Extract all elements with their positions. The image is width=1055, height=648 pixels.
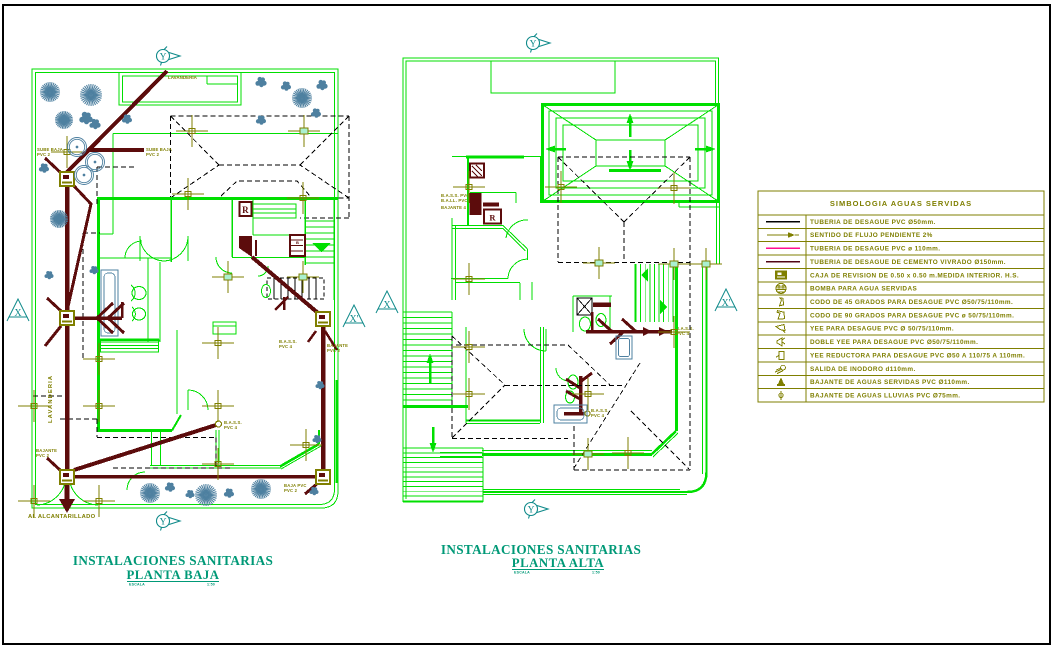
- hall wall horizontal: [100, 257, 171, 259]
- tree starburst garden 3: [80, 84, 102, 106]
- pipe vertical main lower: [65, 326, 70, 471]
- legend row separator: [758, 374, 1044, 376]
- legend symbol yee: [776, 325, 785, 333]
- tree starburst garden 1: [40, 82, 60, 102]
- bath2 fixtures: [262, 285, 271, 298]
- caja de revision CR5: [316, 470, 330, 484]
- pipe tree lower: [579, 376, 583, 414]
- svg-text:AL ALCANTARILLADO: AL ALCANTARILLADO: [28, 514, 96, 520]
- tub bath1 planta baja: [101, 270, 118, 336]
- bath2 dashed box with steps: [267, 278, 324, 299]
- svg-text:LAVANDERIA: LAVANDERIA: [168, 75, 198, 80]
- roof alta outer thick: [543, 105, 719, 202]
- eave right extension: [678, 202, 680, 207]
- pipe long diagonal to BASS: [74, 425, 216, 470]
- axis crosses planta baja: [176, 115, 208, 147]
- legend symbol bomba: [776, 283, 786, 293]
- legend symbol blluv: [779, 391, 783, 400]
- fixture hatch box alta: [470, 164, 484, 178]
- svg-text:CAJA DE REVISION DE 0.50 x 0.5: CAJA DE REVISION DE 0.50 x 0.50 m.MEDIDA…: [810, 272, 1019, 279]
- svg-text:YEE REDUCTORA PARA DESAGUE PVC: YEE REDUCTORA PARA DESAGUE PVC Ø50 A 110…: [810, 352, 1025, 359]
- roof alta diagonals: [543, 105, 596, 140]
- dashed corridor line: [33, 395, 68, 397]
- legend symbol codo90: [777, 311, 785, 320]
- double door arcs center: [140, 236, 164, 261]
- wall chamfer alta: [652, 431, 676, 454]
- bath1 small stubs: [275, 297, 288, 310]
- axis marker X-prime right: [343, 305, 365, 327]
- roof arrows: [629, 116, 632, 137]
- legend row separator: [758, 294, 1044, 296]
- svg-text:TUBERIA DE DESAGUE PVC Ø50mm.: TUBERIA DE DESAGUE PVC Ø50mm.: [810, 219, 936, 226]
- legend row separator: [758, 361, 1044, 363]
- axis crosses planta alta: [453, 171, 485, 203]
- svg-text:BOMBA PARA AGUA SERVIDAS: BOMBA PARA AGUA SERVIDAS: [810, 286, 917, 293]
- pipe vertical right main: [321, 327, 326, 471]
- svg-text:SENTIDO DE FLUJO PENDIENTE 2%: SENTIDO DE FLUJO PENDIENTE 2%: [810, 232, 933, 239]
- svg-text:BAJANTE 4: BAJANTE 4: [441, 205, 467, 210]
- pipe vertical main upper: [65, 185, 70, 312]
- door arc hall: [125, 241, 142, 258]
- garden gate arcs bottom-left: [37, 476, 66, 505]
- svg-text:LAVANDERIA: LAVANDERIA: [48, 375, 54, 423]
- pipe kink to bath: [67, 186, 91, 311]
- legend title separator: [758, 214, 1044, 216]
- terrace stairs arrow down: [432, 427, 435, 450]
- shower blue alta: [616, 336, 632, 359]
- legend row separator: [758, 254, 1044, 256]
- bedroom walls bottom: [466, 419, 540, 421]
- dashed roof3 alta: [573, 426, 575, 470]
- shrub cluster A: [79, 112, 92, 124]
- legend symbol ryee: [776, 351, 784, 359]
- house bottom wall: [150, 465, 281, 467]
- shrubs top strip: [255, 77, 266, 87]
- svg-text:INSTALACIONES SANITARIAS: INSTALACIONES SANITARIAS: [441, 542, 641, 557]
- right boundary below roof: [716, 202, 718, 264]
- tree starburst garden 5: [50, 210, 68, 228]
- registro box R: [240, 202, 252, 216]
- house top wall: [97, 197, 338, 200]
- pipe CR6 stubs: [308, 331, 316, 342]
- terrace landing thick line: [403, 405, 468, 408]
- legend row separator: [758, 308, 1044, 310]
- door arc bedroom SW: [188, 390, 208, 410]
- wall vertical x541 upper: [540, 157, 542, 203]
- tree starburst garden 4: [292, 88, 312, 108]
- svg-text:PVC 2: PVC 2: [37, 152, 51, 157]
- svg-text:1:50: 1:50: [207, 583, 215, 587]
- legend symbol arrow: [767, 234, 790, 236]
- svg-text:PVC 2: PVC 2: [284, 488, 298, 493]
- boundary alta left+top: [403, 58, 719, 502]
- svg-text:DOBLE YEE PARA DESAGUE PVC Ø50: DOBLE YEE PARA DESAGUE PVC Ø50/75/110mm.: [810, 339, 978, 346]
- tub lower blue: [554, 405, 587, 423]
- partition vertical x232: [231, 198, 233, 257]
- terrace stairs upper flight: [403, 311, 452, 313]
- tree starburst garden 2: [55, 111, 73, 129]
- svg-text:X: X: [14, 308, 22, 319]
- svg-text:YEE PARA DESAGUE PVC Ø 50/75/1: YEE PARA DESAGUE PVC Ø 50/75/110mm.: [810, 326, 954, 333]
- svg-text:Y: Y: [160, 53, 167, 63]
- bath lower fixtures: [568, 375, 578, 389]
- house bottom-left room wall: [97, 429, 172, 432]
- bottom strip plants: [140, 483, 160, 503]
- dashed garden line A: [97, 166, 136, 168]
- registro R alta: [484, 210, 501, 224]
- pipe main diagonal to lavanderia: [67, 71, 167, 172]
- pipe bottom main horizontal: [74, 475, 316, 479]
- axis marker Y bottom: [157, 512, 181, 531]
- legend row separator: [758, 281, 1044, 283]
- pipe stub near R: [255, 240, 257, 256]
- legend row separator: [758, 267, 1044, 269]
- bath1 pipe tree: [74, 316, 122, 320]
- bottom wall thick alta: [482, 453, 652, 456]
- door arc small: [556, 368, 569, 381]
- wall left rooms doubles: [451, 218, 453, 300]
- svg-text:BAJANTE DE AGUAS SERVIDAS PVC: BAJANTE DE AGUAS SERVIDAS PVC Ø110mm.: [810, 379, 970, 386]
- legend symbol inodoro: [775, 365, 785, 373]
- stairs interior alta: [635, 264, 637, 322]
- svg-text:CODO DE 90 GRADOS PARA DESAGUE: CODO DE 90 GRADOS PARA DESAGUE PVC ø 50/…: [810, 312, 1014, 319]
- dashed eave bottom: [60, 418, 97, 420]
- house left wall: [97, 198, 100, 432]
- legend row separator: [758, 334, 1044, 336]
- pipe CR3 branch SW: [45, 326, 61, 346]
- roof dashed outline planta baja: [171, 115, 350, 117]
- legend row separator: [758, 241, 1044, 243]
- lower roof dashed: [221, 181, 310, 196]
- caja de revision CR6: [316, 312, 330, 326]
- fixture filled alta: [470, 193, 482, 215]
- pipe sink drop: [591, 312, 594, 331]
- bedroom SW right wall: [176, 330, 178, 414]
- legend table frame: [758, 191, 1044, 402]
- bath upper walls: [572, 296, 574, 332]
- tree rings cluster: [68, 138, 87, 157]
- legend row separator: [758, 388, 1044, 390]
- stair walls alta: [675, 264, 678, 431]
- legend symbol bserv: [777, 377, 785, 386]
- terrace stairs arrow up: [429, 356, 432, 384]
- property boundary outer: [32, 69, 338, 508]
- wall y257 closet bottom: [232, 257, 305, 259]
- kitchen counter: [213, 322, 236, 334]
- svg-text:PVC 2: PVC 2: [146, 152, 160, 157]
- bath1 walls: [147, 258, 149, 342]
- partition vertical x171: [170, 198, 172, 262]
- svg-text:SIMBOLOGIA AGUAS SERVIDAS: SIMBOLOGIA AGUAS SERVIDAS: [830, 199, 972, 208]
- svg-text:PLANTA BAJA: PLANTA BAJA: [126, 568, 219, 582]
- pipe outfall arrow: [65, 485, 70, 500]
- wall horizontal y278: [451, 278, 508, 280]
- svg-text:TUBERIA DE DESAGUE DE CEMENTO: TUBERIA DE DESAGUE DE CEMENTO VIVRADO Ø1…: [810, 259, 1006, 266]
- maroon stub sink upper: [593, 302, 611, 307]
- svg-text:PVC 2: PVC 2: [36, 453, 50, 458]
- legend column separator: [805, 215, 807, 402]
- roof left edge wall: [541, 104, 544, 203]
- caja de revision CR2: [60, 172, 74, 186]
- svg-text:X: X: [383, 300, 391, 311]
- bottom boundary thin: [483, 489, 680, 491]
- wall horizontal y192: [470, 192, 516, 194]
- pipe main alta with chevrons: [586, 330, 672, 334]
- closet stripes room SW: [101, 339, 159, 352]
- svg-text:CODO DE 45 GRADOS PARA DESAGUE: CODO DE 45 GRADOS PARA DESAGUE PVC Ø50/7…: [810, 299, 1013, 306]
- svg-text:ESCALA: ESCALA: [514, 571, 530, 575]
- svg-text:Y: Y: [528, 506, 535, 516]
- lavanderia room: [119, 73, 241, 106]
- legend symbol cr: [775, 271, 787, 280]
- pipe CR4 stub NW: [47, 458, 60, 470]
- pipe alta barbs: [598, 319, 612, 332]
- pipe branch horizontal garden: [88, 148, 144, 152]
- legend symbol codo45: [780, 298, 784, 306]
- legend row separator: [758, 348, 1044, 350]
- caja de revision CR3: [60, 311, 74, 325]
- svg-text:ESCALA: ESCALA: [129, 583, 145, 587]
- dashed roof1 alta: [558, 156, 690, 158]
- wall vertical x468: [467, 157, 469, 225]
- svg-text:1:50: 1:50: [592, 571, 600, 575]
- shrub B: [122, 114, 132, 123]
- garden fence lines: [113, 133, 338, 135]
- door arc kitchen: [216, 257, 232, 273]
- closet upper right: [253, 204, 296, 218]
- property boundary inner: [36, 73, 335, 505]
- hall door arc upper: [506, 220, 528, 238]
- stair walls: [304, 198, 306, 265]
- caja de revision CR4: [60, 470, 74, 484]
- svg-text:B: B: [296, 240, 299, 245]
- axis marker X left: [7, 299, 29, 321]
- stairs planta baja: [306, 220, 334, 222]
- dashed roof2 alta: [451, 336, 453, 438]
- garage door filled: [239, 236, 252, 257]
- door jamb verticals bottom: [215, 430, 217, 463]
- pipe stub NW of CR2: [45, 158, 61, 173]
- legend row separator: [758, 227, 1044, 229]
- bottom-right chamfer wall: [280, 444, 319, 467]
- BAP box by stairs: [290, 235, 305, 256]
- roof hips planta baja: [171, 116, 220, 165]
- svg-text:PVC 4: PVC 4: [224, 425, 238, 430]
- svg-text:INSTALACIONES SANITARIAS: INSTALACIONES SANITARIAS: [73, 553, 273, 568]
- boundary right thick segment: [336, 380, 338, 483]
- legend symbol dyee: [777, 338, 785, 346]
- legend symbol line-pink: [766, 247, 800, 249]
- terrace stairs lower flight: [403, 447, 483, 449]
- patio arc bottom: [127, 472, 145, 490]
- svg-text:PVC 2: PVC 2: [327, 348, 341, 353]
- walls center verticals: [519, 283, 521, 300]
- wall top thick alta: [466, 155, 524, 158]
- legend symbol line-black: [766, 221, 800, 223]
- axis marker X alta: [376, 291, 398, 313]
- axis marker X-prime alta: [715, 289, 737, 311]
- axis marker Y bottom alta: [525, 500, 549, 519]
- legend symbol line-maroon: [766, 261, 800, 263]
- garage rect top: [491, 61, 615, 93]
- svg-text:Y: Y: [530, 40, 537, 50]
- door arc big bedroom: [524, 329, 546, 351]
- toilet bath1: [132, 287, 146, 300]
- corridor to garden walls: [151, 432, 153, 466]
- axis marker Y top: [157, 47, 181, 66]
- svg-text:PVC 4: PVC 4: [591, 413, 605, 418]
- axis marker Y top alta: [527, 34, 551, 53]
- pipe CR5 stub: [305, 483, 318, 494]
- svg-text:X': X': [721, 298, 730, 309]
- shrub garden left: [39, 163, 49, 172]
- svg-text:PVC 4: PVC 4: [279, 344, 293, 349]
- svg-text:PLANTA ALTA: PLANTA ALTA: [512, 556, 605, 570]
- svg-text:Y: Y: [160, 518, 167, 528]
- hall walls with chamfer: [452, 225, 503, 227]
- svg-text:R: R: [242, 205, 249, 215]
- pipe garage diagonal: [252, 257, 318, 313]
- fixture stub alta: [483, 203, 499, 207]
- svg-text:BAJANTE DE AGUAS LLUVIAS PVC Ø: BAJANTE DE AGUAS LLUVIAS PVC Ø75mm.: [810, 393, 960, 400]
- roof ridge thick: [609, 169, 661, 172]
- svg-text:B.A.LL. PVC: B.A.LL. PVC: [441, 198, 468, 203]
- sink box with X upper: [577, 298, 592, 315]
- pipe CR3 branch NW: [47, 298, 61, 311]
- toilet upper: [580, 317, 591, 331]
- svg-text:SALIDA DE INODORO d110mm.: SALIDA DE INODORO d110mm.: [810, 366, 916, 373]
- svg-text:R: R: [489, 213, 496, 223]
- stair arrow triangle: [312, 243, 331, 252]
- legend row separator: [758, 321, 1044, 323]
- dashed bath box: [83, 232, 100, 234]
- svg-text:X': X': [349, 314, 358, 325]
- svg-text:TUBERIA DE DESAGUE PVC ø 110mm: TUBERIA DE DESAGUE PVC ø 110mm.: [810, 246, 940, 253]
- roof alta inner rects: [549, 111, 712, 195]
